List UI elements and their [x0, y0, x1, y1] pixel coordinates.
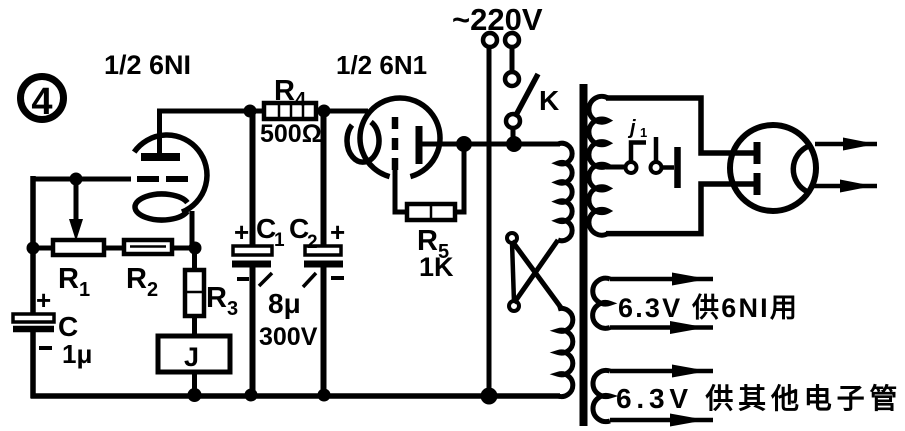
resistor R1 body	[53, 240, 104, 255]
svg-text:3: 3	[227, 298, 238, 320]
wire: V1 plate to node A	[157, 109, 266, 114]
wire: J to ground bus	[192, 372, 197, 394]
wire: node G down left side	[30, 176, 36, 316]
mains terminal right	[505, 33, 519, 47]
svg-text:8μ: 8μ	[268, 288, 301, 319]
potentiometer R1 wiper arrow	[69, 183, 83, 241]
svg-text:R: R	[206, 282, 227, 314]
wire: R2 to junction	[172, 246, 195, 251]
label J	[184, 342, 199, 372]
transformer T secondary S1 (HV) winding	[589, 96, 608, 235]
C2 pointer tick	[303, 273, 316, 287]
svg-text:6.3V 供其他电子管: 6.3V 供其他电子管	[616, 382, 902, 414]
junction dot J on bus	[188, 388, 202, 402]
svg-text:1μ: 1μ	[62, 339, 92, 369]
svg-text:300V: 300V	[259, 323, 318, 351]
wire: R5 to node D	[455, 144, 464, 212]
label 1u value of C	[62, 339, 92, 369]
capacitor C2 polarity +	[330, 217, 345, 247]
triode V1 plate	[141, 111, 180, 157]
capacitor C2 plates	[304, 246, 343, 264]
wire: right mains terminal to switch	[510, 47, 515, 72]
resistor R5 body	[407, 204, 455, 220]
svg-text:R: R	[58, 263, 79, 295]
label R5	[417, 225, 449, 263]
voltage selector tap wire upper	[514, 240, 558, 303]
node E junction dot	[506, 136, 522, 152]
svg-text:K: K	[539, 85, 559, 116]
node A junction dot	[244, 105, 257, 118]
capacitor C1 plates	[232, 246, 272, 264]
voltage selector link terminal upper	[507, 233, 517, 243]
node D junction dot	[456, 136, 472, 152]
output tube heater pin upper	[754, 142, 761, 164]
junction dot C2 on bus	[318, 389, 331, 402]
capacitor C2 polarity -	[331, 276, 344, 280]
wire: V1 cathode to R2/R3 junction	[190, 211, 195, 248]
wire: V2 plate to node D	[421, 142, 464, 147]
svg-text:1: 1	[640, 125, 647, 140]
svg-text:1/2 6N1: 1/2 6N1	[336, 50, 427, 80]
junction dot mains/bus/primary	[481, 388, 498, 405]
svg-text:4: 4	[295, 89, 307, 111]
C1 pointer tick	[259, 273, 272, 286]
triode V2 envelope	[360, 98, 440, 177]
jack j1 left contact lead	[631, 143, 646, 163]
switch K upper contact	[505, 72, 519, 86]
output arrow lower	[812, 180, 877, 193]
wire: C to ground bus	[30, 332, 36, 398]
triode V2 cathode loop	[347, 122, 379, 162]
relay J box	[158, 336, 230, 372]
wire: R1 to R2	[104, 246, 124, 251]
svg-text:4: 4	[31, 81, 52, 123]
resistor R4 body	[264, 103, 316, 119]
svg-text:J: J	[184, 342, 199, 372]
voltage selector tap wire lower	[512, 241, 562, 309]
wire: S1 center tap to jack j1	[606, 165, 627, 170]
svg-text:2: 2	[307, 232, 318, 253]
svg-text:R: R	[126, 263, 147, 295]
label C	[58, 311, 78, 342]
output tube heater envelope	[730, 125, 816, 211]
svg-text:1K: 1K	[419, 252, 454, 282]
wire: S1 bottom to output tube lower pin	[606, 184, 754, 234]
output tube heater pin lower	[754, 173, 761, 195]
transformer T primary winding upper	[558, 143, 572, 240]
capacitor C1 polarity +	[234, 217, 249, 247]
label 1K value	[419, 252, 454, 282]
jack j1 left contact	[626, 162, 637, 173]
wire: V2 grid down to R5	[395, 166, 407, 212]
wire: S1 top to output tube upper pin	[606, 98, 754, 153]
label R2	[126, 263, 158, 301]
svg-text:~220V: ~220V	[452, 2, 543, 37]
transformer T secondary S3 (6.3V) winding	[593, 370, 610, 421]
label 8u value	[268, 288, 301, 319]
S3 output wire upper with arrow	[610, 365, 713, 378]
capacitor C2 top wire	[321, 111, 327, 246]
label R4	[274, 75, 307, 111]
capacitor C plates	[13, 314, 54, 329]
wire: node D to node E	[464, 142, 514, 147]
wire: switch to node E	[511, 128, 516, 148]
label R1	[58, 263, 90, 301]
svg-text:1: 1	[79, 279, 90, 301]
jack j1 plug bar	[674, 147, 681, 188]
label ~220V	[452, 2, 543, 37]
triode V1 envelope	[134, 135, 207, 212]
resistor R2 body	[124, 240, 172, 254]
transformer T primary winding lower	[558, 308, 573, 396]
capacitor C1 top wire	[250, 111, 256, 246]
junction dot C1 on bus	[245, 389, 258, 402]
voltage selector link wire	[512, 242, 514, 302]
label 6.3V for other tubes	[616, 382, 902, 414]
svg-text:6.3V 供6NI用: 6.3V 供6NI用	[618, 293, 799, 323]
svg-text:j: j	[627, 117, 636, 139]
svg-text:+: +	[330, 217, 345, 247]
label R3	[206, 282, 238, 320]
switch K lower contact	[506, 114, 520, 128]
capacitor C1 polarity -	[237, 277, 249, 281]
wire: R3 to relay J	[192, 316, 197, 336]
label C1	[256, 213, 285, 251]
output arrow upper	[815, 138, 877, 151]
node junction dot at R1 left	[27, 242, 40, 255]
svg-text:1: 1	[274, 230, 285, 251]
triode V1 grid (dashed)	[137, 176, 188, 182]
jack j1 right contact lead	[654, 137, 659, 162]
output tube inner crescent	[793, 146, 809, 192]
triode V2 grid (dashed)	[392, 117, 399, 170]
wire: C1 to ground bus	[250, 267, 256, 395]
label 300V value	[259, 323, 318, 351]
circled figure number 4	[21, 77, 64, 124]
transformer T secondary S2 (6.3V) winding	[593, 278, 610, 328]
capacitor C polarity -	[39, 346, 52, 350]
triode V2 plate	[416, 126, 423, 164]
wire: node B to V2 cathode	[324, 109, 368, 114]
node B junction dot	[318, 105, 331, 118]
S2 output wire lower with arrow	[610, 321, 713, 334]
resistor R3 body	[185, 270, 204, 316]
svg-text:500Ω: 500Ω	[260, 120, 322, 148]
triode V1 cathode	[135, 194, 187, 220]
wire: left mains terminal down to bus	[487, 47, 492, 396]
transformer T core	[580, 84, 588, 426]
jack j1 right contact	[651, 162, 662, 173]
label 500 ohm	[260, 120, 322, 148]
wire: C2 to ground bus	[321, 267, 327, 395]
label K	[539, 85, 559, 116]
svg-text:+: +	[36, 285, 51, 315]
node G junction dot	[70, 173, 83, 186]
svg-text:1/2 6NI: 1/2 6NI	[104, 50, 191, 80]
wire: R3 junction down to R3	[192, 248, 197, 270]
capacitor C polarity +	[36, 285, 51, 315]
voltage selector link terminal lower	[509, 301, 519, 311]
wire: node E to transformer primary top	[514, 142, 560, 147]
label C2	[289, 213, 318, 253]
wire: R4 to node B	[316, 109, 330, 114]
svg-text:2: 2	[147, 279, 158, 301]
wire: node to R1	[33, 246, 53, 251]
label 6.3V for 6N1	[618, 293, 799, 323]
S3 output wire lower with arrow	[610, 414, 713, 427]
wire: j1 right contact to plug	[661, 165, 674, 170]
bottom common bus wire	[31, 393, 561, 399]
wire: V1 grid to node G	[33, 177, 131, 182]
mains terminal left	[483, 33, 497, 47]
junction dot R2/R3/cathode	[189, 242, 202, 255]
S2 output wire upper with arrow	[610, 273, 713, 286]
switch K blade	[515, 74, 538, 117]
svg-text:C: C	[58, 311, 78, 342]
label j1	[627, 117, 647, 140]
svg-text:+: +	[234, 217, 249, 247]
